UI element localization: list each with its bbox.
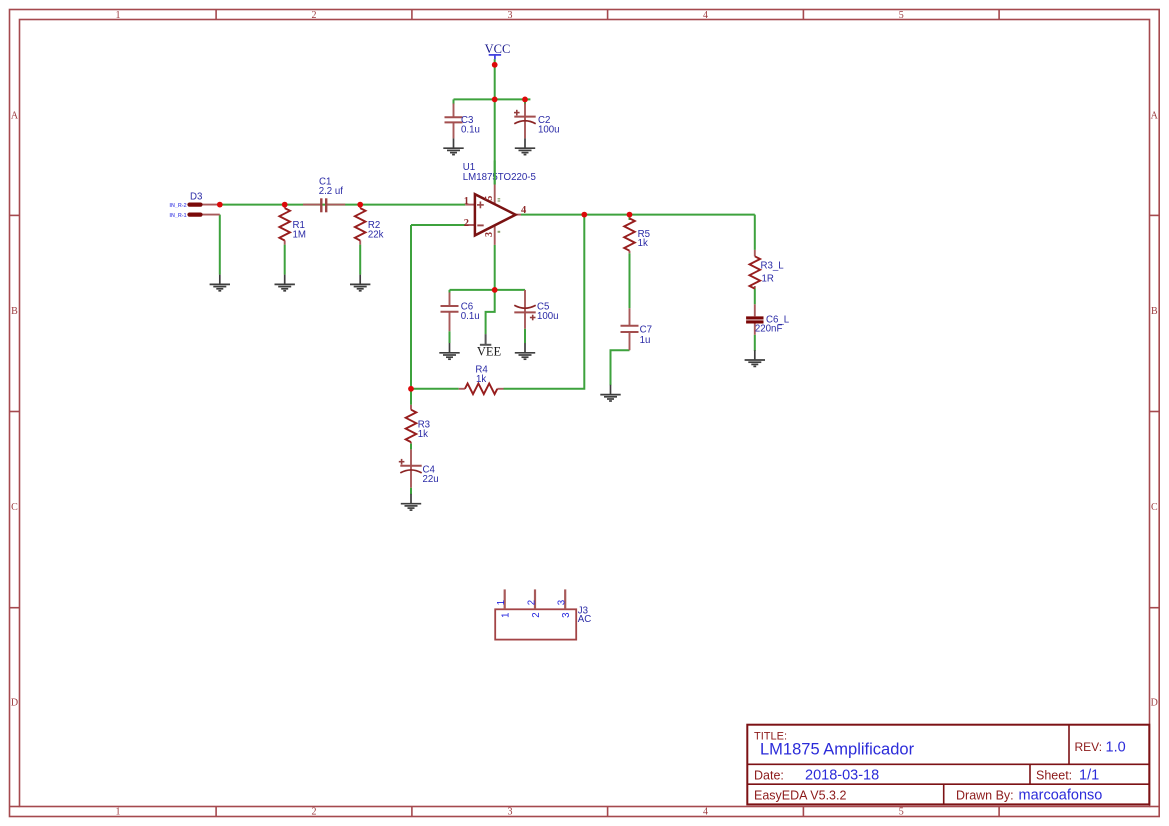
svg-text:220nF: 220nF	[755, 324, 783, 335]
svg-text:2: 2	[312, 10, 317, 21]
svg-text:C: C	[11, 502, 18, 513]
svg-text:B: B	[1151, 306, 1158, 317]
svg-text:C: C	[1151, 502, 1158, 513]
svg-text:VCC: VCC	[485, 42, 511, 56]
svg-text:LM1875TO220-5: LM1875TO220-5	[463, 172, 536, 183]
svg-text:100u: 100u	[537, 311, 559, 322]
svg-text:0.1u: 0.1u	[461, 311, 480, 322]
svg-text:4: 4	[521, 205, 527, 216]
svg-text:A: A	[1151, 110, 1159, 121]
svg-text:3: 3	[508, 806, 513, 817]
svg-text:2: 2	[464, 218, 469, 229]
svg-text:1k: 1k	[418, 429, 428, 440]
svg-text:1: 1	[501, 612, 512, 617]
svg-text:100u: 100u	[538, 125, 560, 136]
svg-text:D3: D3	[190, 192, 202, 203]
svg-text:IN_R-1: IN_R-1	[170, 213, 187, 219]
svg-text:3: 3	[557, 600, 568, 605]
svg-text:3: 3	[508, 10, 513, 21]
svg-text:A: A	[11, 110, 19, 121]
svg-text:2.2 uf: 2.2 uf	[319, 186, 344, 197]
svg-text:1: 1	[496, 600, 507, 605]
svg-text:2: 2	[531, 612, 542, 617]
svg-text:1k: 1k	[476, 374, 486, 385]
svg-text:Date:: Date:	[754, 769, 784, 783]
svg-text:3: 3	[561, 612, 572, 617]
svg-text:1R: 1R	[762, 273, 774, 284]
svg-text:1.0: 1.0	[1106, 740, 1126, 756]
svg-text:C7: C7	[640, 325, 652, 336]
svg-text:1: 1	[116, 10, 121, 21]
svg-text:REV:: REV:	[1075, 740, 1103, 754]
svg-text:2: 2	[312, 806, 317, 817]
svg-text:IN_R-2: IN_R-2	[170, 203, 187, 209]
svg-text:AC: AC	[578, 614, 591, 625]
svg-text:LM1875 Amplificador: LM1875 Amplificador	[760, 741, 915, 759]
svg-text:Drawn By:: Drawn By:	[956, 789, 1014, 803]
svg-text:5: 5	[899, 10, 904, 21]
svg-text:1: 1	[116, 806, 121, 817]
svg-text:EasyEDA V5.3.2: EasyEDA V5.3.2	[754, 789, 846, 803]
svg-text:B: B	[11, 306, 18, 317]
svg-text:0.1u: 0.1u	[461, 125, 480, 136]
svg-text:VEE: VEE	[477, 344, 502, 358]
svg-text:1M: 1M	[293, 230, 306, 241]
svg-text:3: 3	[484, 232, 495, 237]
svg-text:22u: 22u	[423, 474, 439, 485]
svg-text:5: 5	[484, 196, 495, 201]
svg-text:1: 1	[464, 196, 469, 207]
svg-text:Sheet:: Sheet:	[1036, 769, 1072, 783]
svg-text:D: D	[1151, 698, 1158, 709]
svg-text:1k: 1k	[638, 238, 648, 249]
svg-text:marcoafonso: marcoafonso	[1019, 788, 1103, 804]
svg-text:R3_L: R3_L	[761, 261, 785, 272]
svg-text:4: 4	[703, 10, 708, 21]
svg-text:4: 4	[703, 806, 708, 817]
svg-text:1/1: 1/1	[1079, 768, 1099, 784]
svg-text:5: 5	[899, 806, 904, 817]
svg-text:D: D	[11, 698, 18, 709]
svg-text:1u: 1u	[640, 335, 651, 346]
svg-text:2: 2	[526, 600, 537, 605]
svg-text:22k: 22k	[368, 230, 384, 241]
svg-text:2018-03-18: 2018-03-18	[805, 768, 879, 784]
